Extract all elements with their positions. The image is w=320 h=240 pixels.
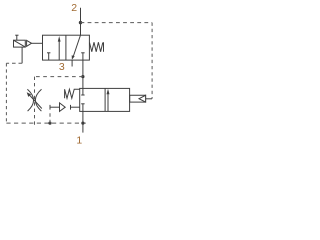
left pilot feed line: [50, 106, 60, 108]
valve U1 cell divider: [65, 35, 67, 60]
valve U1 left-cell blocked port: [47, 53, 50, 60]
node junction B-F: [48, 122, 51, 125]
svg-text:3: 3: [59, 61, 65, 73]
valve U2 left-cell blocked port top: [81, 88, 84, 95]
pilot line A1 (dashed, tap to throttle): [35, 76, 83, 78]
valve U2 right-cell flow arrow: [107, 89, 110, 112]
solenoid coil of U1: [14, 40, 26, 47]
pilot line B (dashed, bottom run): [6, 122, 85, 124]
valve U2 cell divider: [104, 88, 106, 111]
throttle valve FC1 arcs: [27, 89, 41, 111]
spring return of U1: [90, 42, 104, 52]
valve U1 left-cell flow arrow: [58, 36, 61, 60]
left pilot stub into U2: [71, 105, 80, 110]
valve U2 body: [80, 88, 130, 111]
solenoid wire: [21, 47, 23, 63]
wire port 1 of U1 down to U2: [82, 60, 84, 88]
solenoid pin: [15, 35, 18, 40]
valve U2 left-cell blocked port bottom: [81, 104, 84, 112]
right pilot box of U2: [130, 95, 146, 102]
pilot line C (dashed, left edge down): [5, 63, 7, 123]
pilot triangle of U1: [27, 40, 32, 46]
left pilot triangle of U2: [60, 103, 66, 112]
wire port 3 stub: [71, 60, 73, 66]
pilot line D (dashed, solenoid to left edge): [6, 62, 22, 64]
pilot connector to valve: [32, 42, 43, 44]
pilot line F (dashed, up to left pilot): [49, 110, 51, 123]
right pilot triangle of U2: [139, 95, 146, 102]
pilot line A2 (dashed, through throttle): [34, 77, 36, 126]
valve U1 body: [43, 35, 90, 60]
valve U1 right-cell blocked port: [81, 53, 84, 60]
wire port 1 terminal: [82, 111, 84, 132]
throttle adjuster arrow: [27, 92, 42, 108]
spring of U2 (left): [65, 89, 80, 98]
svg-text:1: 1: [76, 135, 82, 147]
svg-text:2: 2: [71, 2, 77, 14]
valve U1 right-cell exhaust arrow: [72, 35, 81, 59]
pilot line E vertical (dashed down right side): [151, 23, 153, 99]
left pilot feed tick: [49, 105, 51, 110]
right pilot connector: [146, 98, 152, 100]
node junction B-port1: [81, 122, 84, 125]
node junction on port 2 line: [79, 21, 82, 24]
wire port 2 vertical: [80, 8, 82, 35]
pilot line E horizontal (dashed to right): [81, 22, 153, 24]
node junction pilot tap: [81, 75, 84, 78]
